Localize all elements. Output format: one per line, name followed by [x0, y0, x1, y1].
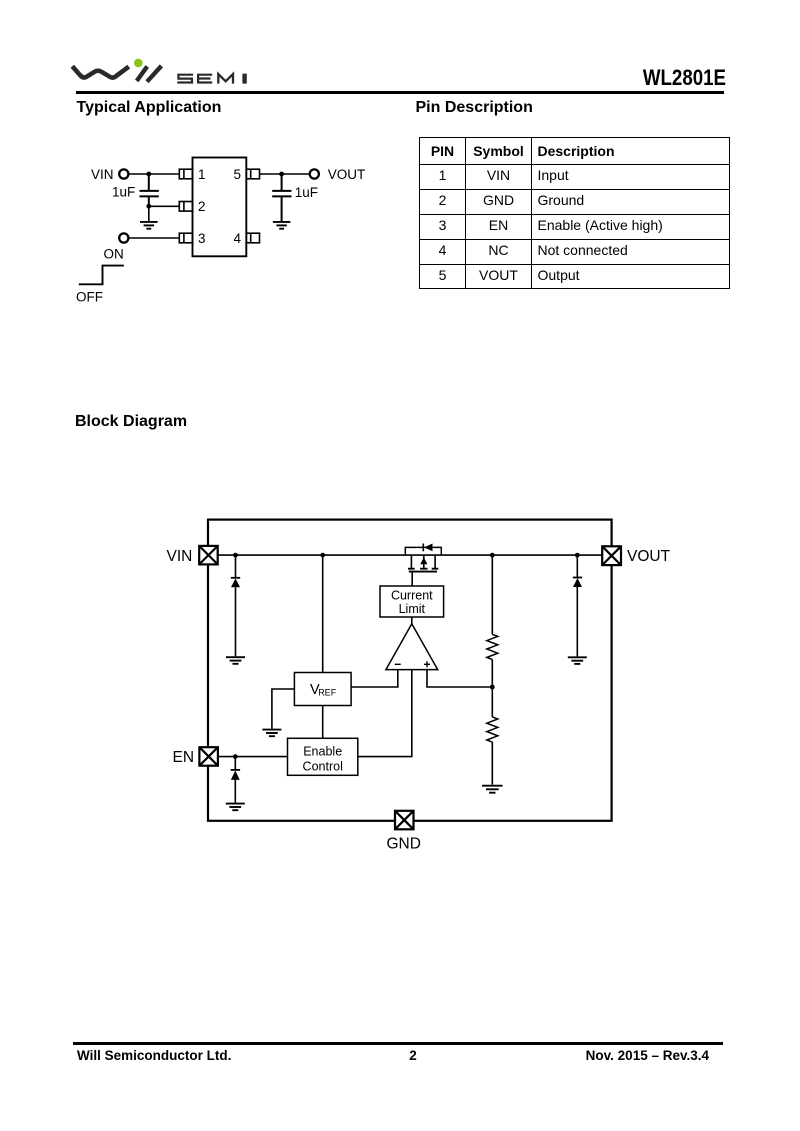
wire VREF to ground: [272, 689, 295, 729]
logo letter E: [198, 75, 212, 83]
svg-text:VIN: VIN: [91, 167, 114, 182]
heading: Pin Description: [416, 100, 533, 116]
pad VIN: [199, 546, 218, 565]
logo letter I: [242, 74, 246, 84]
transistor M1 body arrow: [420, 557, 427, 564]
svg-text:ON: ON: [104, 246, 124, 261]
wire current limit to op-amp output: [411, 617, 413, 624]
ground (D3): [226, 804, 245, 811]
wire op-amp minus input: [351, 670, 398, 687]
op-amp minus sign: [395, 663, 401, 665]
footer left: [77, 1049, 231, 1063]
svg-text:VOUT: VOUT: [328, 167, 366, 182]
junction VOUT wire: [279, 172, 284, 177]
junction pin2 wire: [146, 204, 151, 209]
label Enable Control: [303, 745, 343, 774]
waveform on/off step: [79, 266, 124, 285]
svg-text:VIN: VIN: [167, 548, 193, 565]
wire VIN to pin 1: [129, 173, 180, 175]
block Enable Control: [288, 738, 358, 775]
wire rail to VREF: [322, 555, 324, 672]
ground (output): [273, 222, 291, 229]
transistor M1 body diode loop: [405, 547, 441, 555]
heading: Block Diagram: [75, 414, 187, 430]
wire op-amp plus input: [427, 670, 492, 687]
transistor M1 body drop: [423, 555, 425, 568]
svg-text:VOUT: VOUT: [627, 548, 671, 565]
junction rail/VREF: [320, 553, 325, 558]
svg-text:3: 3: [198, 231, 206, 246]
label Current Limit: [391, 589, 433, 617]
pin 3 box: [179, 233, 192, 243]
wire pin 2 to C1 node: [149, 205, 180, 207]
logo i slash: [137, 66, 148, 81]
svg-text:1uF: 1uF: [112, 185, 135, 200]
pad VOUT: [602, 546, 621, 565]
svg-text:Current: Current: [391, 589, 433, 603]
logo i dot (green): [134, 59, 143, 68]
transistor M1 gate bar: [409, 571, 437, 573]
svg-text:EN: EN: [173, 749, 195, 766]
junction on VIN wire: [146, 172, 151, 177]
pin 5 box: [246, 169, 259, 179]
wire rail to R1: [491, 555, 493, 634]
ground (divider): [482, 786, 503, 793]
junction feedback node: [490, 685, 495, 690]
transistor M1 source drop: [410, 555, 412, 568]
svg-text:Limit: Limit: [399, 602, 426, 616]
pin 1 box: [179, 169, 192, 179]
diode D2 (VOUT clamp): [573, 555, 582, 656]
wire EN to pin 3: [129, 237, 180, 239]
capacitor C2: [272, 174, 291, 221]
svg-text:OFF: OFF: [76, 289, 103, 304]
svg-text:1uF: 1uF: [295, 185, 318, 200]
wire R1 to feedback node: [491, 660, 493, 688]
junction EN/D3: [233, 754, 238, 759]
wire gate to current limit: [411, 572, 413, 586]
ground (D2): [568, 657, 587, 664]
label VREF: [310, 682, 337, 698]
wire VIN rail to VOUT: [218, 554, 603, 556]
pad GND: [395, 811, 414, 830]
svg-text:Enable: Enable: [303, 745, 342, 759]
ground (D1): [226, 657, 245, 664]
terminal VOUT: [310, 169, 319, 178]
ground (VREF): [262, 730, 281, 737]
svg-text:GND: GND: [387, 835, 421, 852]
op-amp plus sign: [424, 661, 430, 667]
pad EN: [199, 747, 218, 766]
resistor R1: [487, 634, 498, 659]
svg-text:4: 4: [234, 231, 242, 246]
block Current Limit: [380, 586, 444, 617]
junction rail/D2: [575, 553, 580, 558]
footer page number: [383, 1049, 443, 1063]
junction rail/divider: [490, 553, 495, 558]
ground (input): [140, 222, 158, 229]
terminal EN: [119, 233, 128, 242]
svg-text:REF: REF: [318, 688, 337, 698]
wire C1 node to ground: [148, 206, 150, 221]
IC U1 body: [193, 158, 247, 257]
terminal VIN: [119, 169, 128, 178]
block VREF: [294, 673, 351, 706]
heading: Typical Application: [77, 100, 222, 116]
diode D1 (VIN clamp): [231, 555, 240, 656]
logo letter S: [177, 75, 193, 83]
transistor M1 drain drop: [434, 555, 436, 568]
wire op-amp enable to enable control: [358, 670, 412, 757]
svg-text:2: 2: [198, 199, 206, 214]
resistor R2: [487, 717, 498, 742]
wire VREF to enable control: [322, 706, 324, 739]
footer rule: [73, 1042, 723, 1045]
body diode arrow: [424, 544, 432, 552]
logo l slash: [147, 66, 161, 82]
wire EN pad to enable control: [218, 756, 288, 758]
body diode cathode bar: [422, 544, 424, 552]
op-amp U1: [386, 624, 438, 670]
wire pin 5 to VOUT: [260, 173, 310, 175]
capacitor C1: [140, 174, 159, 206]
pin 2 box: [179, 202, 192, 212]
pin description table: [419, 137, 730, 289]
header rule: [76, 91, 724, 94]
part number WL2801E: [641, 67, 726, 89]
wire feedback node to R2: [491, 687, 493, 717]
IC boundary box: [208, 520, 612, 821]
svg-text:1: 1: [198, 167, 206, 182]
wire R2 to ground: [491, 742, 493, 785]
logo wave (w of will): [72, 66, 129, 77]
transistor M1 channel bars: [408, 568, 438, 570]
svg-text:Control: Control: [303, 760, 343, 774]
svg-text:5: 5: [234, 167, 242, 182]
pin 4 box: [246, 233, 259, 243]
diode D3 (EN clamp): [231, 757, 240, 803]
junction rail/D1: [233, 553, 238, 558]
footer right: [509, 1049, 709, 1063]
logo letter M: [218, 74, 233, 84]
